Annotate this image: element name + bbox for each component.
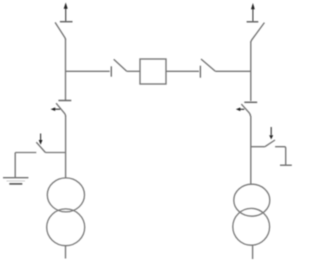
fixed contact bar of left maintenance disconnector — [58, 100, 71, 102]
earth contact bar of right earthing switch — [280, 164, 292, 166]
wire: right feeder vertical upper — [250, 42, 252, 102]
wire: right earthing branch left segment — [251, 146, 265, 148]
blade of right maintenance disconnector (open) — [241, 104, 250, 116]
ground (left earth electrode) — [3, 178, 28, 184]
wire: right feeder vertical lower — [250, 116, 252, 185]
blade of left earthing switch (open) — [36, 142, 45, 152]
feeder line arrow (left outgoing line) — [64, 3, 68, 22]
transformer T2 primary winding — [234, 184, 270, 216]
wire: left feeder to bus coupler — [66, 70, 110, 72]
blade of left maintenance disconnector (open) — [56, 103, 66, 116]
transformer T1 primary winding — [47, 178, 84, 212]
blade of coupler right disconnector (open) — [201, 59, 215, 71]
wire: coupler left disconnector to breaker — [127, 70, 140, 72]
wire: left earthing branch right segment — [45, 152, 65, 154]
withdraw arrow of left maintenance disconnector — [51, 107, 61, 111]
feeder line arrow (right outgoing line) — [251, 3, 255, 21]
fixed contact bar of right line disconnector — [247, 21, 259, 23]
fixed contact bar of right maintenance disconnector — [244, 101, 257, 103]
operating arrow of right earthing switch — [269, 127, 273, 139]
wire: T1 low-voltage tail — [65, 246, 67, 259]
fixed contact bar of coupler right disconnector — [199, 66, 201, 78]
wire: T2 low-voltage tail — [252, 245, 254, 259]
blade of right line disconnector (open) — [251, 23, 265, 43]
circuit breaker (bus coupler box) — [140, 59, 166, 84]
operating arrow of left earthing switch — [39, 134, 43, 145]
wire: left earthing branch left segment — [15, 152, 36, 154]
wire: right earthing branch right segment with corner — [275, 147, 286, 165]
blade of left line disconnector (open) — [55, 22, 65, 39]
wire: left feeder vertical upper — [65, 39, 67, 100]
wire: coupler right disconnector to right feeder — [215, 70, 251, 72]
withdraw arrow of right maintenance disconnector — [236, 108, 244, 112]
blade of coupler left disconnector (open) — [114, 59, 127, 71]
wire: left feeder vertical lower — [65, 116, 67, 179]
fixed contact bar of left line disconnector — [60, 21, 73, 23]
wire: breaker to coupler right disconnector — [166, 70, 199, 72]
fixed contact bar of coupler left disconnector — [110, 66, 112, 76]
transformer T1 secondary winding — [47, 209, 85, 246]
wire: down lead to left earth — [14, 153, 16, 178]
blade of right earthing switch (open) — [265, 140, 275, 147]
transformer T2 secondary winding — [233, 208, 270, 245]
